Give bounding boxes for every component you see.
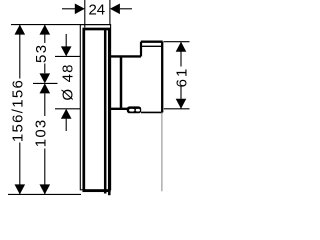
cap top [141, 41, 163, 43]
plate thin outline [80, 25, 110, 190]
dim 24: extension lines [84, 0, 86, 28]
top edge line [11, 24, 111, 26]
svg-text:156/156: 156/156 [9, 79, 26, 142]
svg-text:53: 53 [33, 43, 50, 63]
center tick [33, 82, 58, 84]
bottom extension line [8, 193, 81, 195]
plate thick body [84, 29, 110, 191]
dim 61: extension lines [164, 41, 190, 43]
block below plate [104, 191, 107, 194]
dim Ø48: arrows [65, 34, 67, 47]
knob grip bottom [111, 108, 141, 110]
knob grip top [111, 55, 141, 57]
knob sleeve line [120, 56, 123, 108]
dim 53/103: line [44, 25, 46, 195]
cap left step [140, 42, 142, 57]
svg-text:24: 24 [88, 2, 105, 19]
svg-text:61: 61 [174, 67, 191, 88]
dim 61: line + arrows [180, 42, 182, 109]
button bump [127, 106, 141, 113]
dim Ø48: extension lines [55, 55, 80, 57]
dim 24: right arrow [120, 8, 132, 10]
cap inner line [142, 45, 162, 47]
cap bottom [141, 111, 163, 113]
svg-text:103: 103 [33, 119, 50, 148]
dim 156/156: line [19, 25, 21, 195]
cap right edge [161, 42, 163, 113]
gray projection line [161, 112, 163, 191]
inner vertical line [104, 29, 107, 191]
dim 24: left arrow [62, 8, 76, 10]
svg-text:Ø 48: Ø 48 [59, 63, 76, 100]
